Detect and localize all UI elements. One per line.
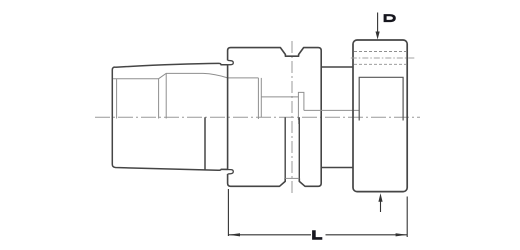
nut thread hidden line bottom xyxy=(354,63,406,65)
main horizontal centerline xyxy=(95,116,420,118)
L dimension line xyxy=(228,234,311,236)
D dimension lower arrow (points up at nut bottom) xyxy=(380,202,382,213)
bore step stub below centerline xyxy=(298,117,300,124)
taper inner bore vertical 1 xyxy=(116,79,118,119)
L dimension extension line left xyxy=(227,189,229,236)
nut thread centerline xyxy=(351,57,416,59)
nut bore (section, top half) xyxy=(359,77,403,120)
D label xyxy=(384,14,396,22)
flange inner boss box xyxy=(298,92,304,120)
L label xyxy=(312,230,322,240)
taper inner bore vertical 2 xyxy=(158,79,160,119)
flange face relief groove (top) xyxy=(221,60,233,65)
L dim arrowhead left xyxy=(228,233,240,236)
bore horizontal y110 to nut xyxy=(304,109,359,111)
flange outline with V-groove notches xyxy=(228,48,322,187)
flange groove root line (bottom, light) xyxy=(285,177,299,179)
D dimension arrow xyxy=(377,13,379,34)
L dim arrowhead right xyxy=(396,233,408,236)
groove vertical centerline xyxy=(291,41,293,193)
flange bore step verticals (section, top half) xyxy=(257,78,259,119)
flange bore horizontal y97 xyxy=(261,96,298,98)
nut thread hidden line top xyxy=(354,51,406,53)
flange groove edge lines (bottom half, external view) xyxy=(284,117,286,181)
mid cylinder top edge xyxy=(321,66,353,68)
nut outline xyxy=(353,40,407,192)
mid cylinder bottom edge xyxy=(321,167,353,169)
flange face relief groove (bottom) xyxy=(221,169,233,174)
taper shank outer contour xyxy=(112,63,227,170)
L dimension extension line right xyxy=(406,197,408,238)
taper inner section contour (top half) xyxy=(113,73,258,78)
taper/neck junction edge (bottom half) xyxy=(204,117,206,170)
taper inner bore vertical 3 xyxy=(165,73,167,118)
